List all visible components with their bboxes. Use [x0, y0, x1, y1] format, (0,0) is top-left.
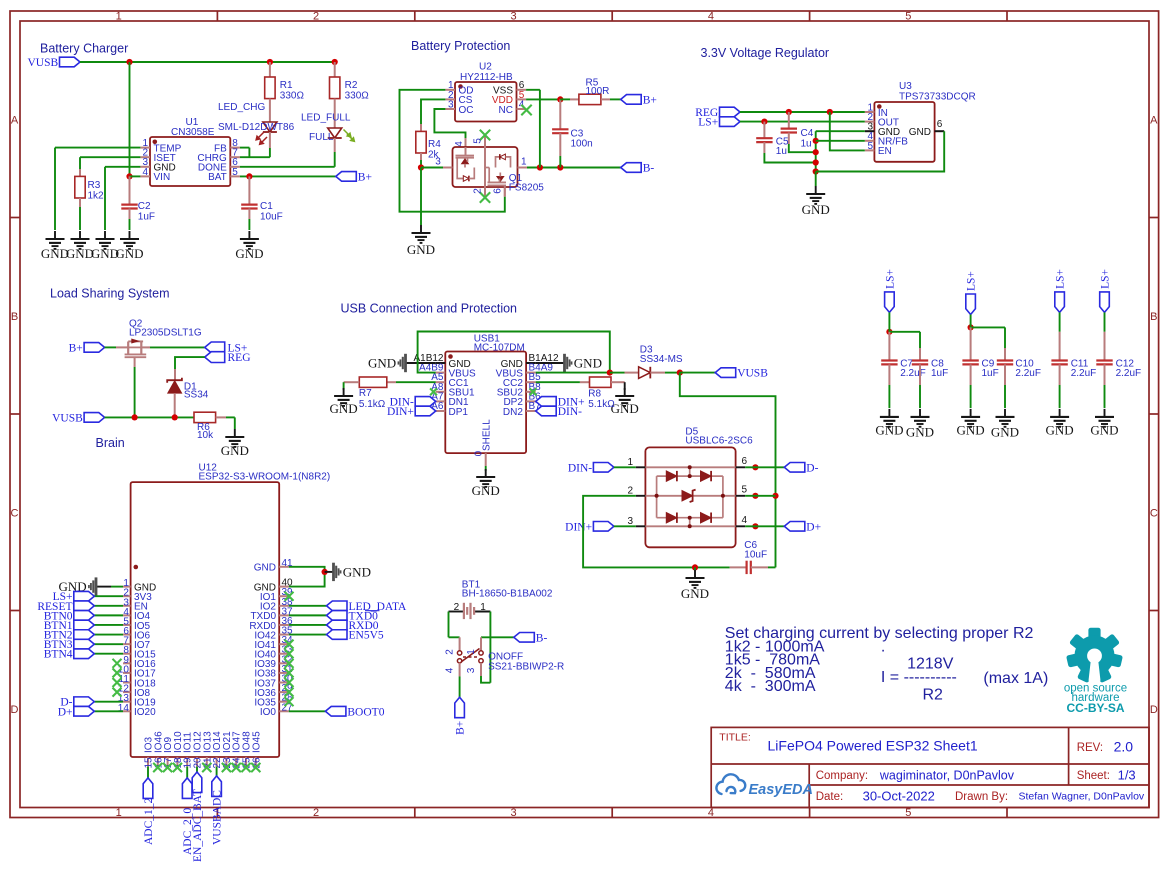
svg-text:TITLE:: TITLE: [719, 731, 751, 743]
svg-text:330Ω: 330Ω [280, 91, 305, 102]
svg-text:10k: 10k [197, 430, 214, 441]
svg-text:5: 5 [232, 167, 238, 178]
svg-text:2: 2 [445, 649, 456, 655]
svg-text:EN_ADC_BAT: EN_ADC_BAT [192, 789, 204, 862]
svg-text:0: 0 [474, 450, 485, 456]
svg-text:NC: NC [499, 105, 513, 116]
svg-text:GND: GND [875, 423, 903, 438]
svg-text:B+: B+ [455, 721, 467, 735]
svg-text:R1: R1 [280, 80, 293, 91]
svg-text:GND: GND [906, 425, 934, 440]
svg-text:LED_FULL: LED_FULL [301, 113, 351, 124]
svg-text:BAT: BAT [208, 172, 227, 183]
svg-text:1: 1 [466, 649, 477, 655]
svg-text:DIN+: DIN+ [565, 521, 592, 533]
svg-text:U3: U3 [899, 81, 912, 92]
svg-text:A: A [11, 114, 19, 126]
svg-text:D: D [1150, 704, 1158, 716]
svg-text:ADC_1_2: ADC_1_2 [143, 797, 155, 845]
svg-text:Stefan Wagner, D0nPavlov: Stefan Wagner, D0nPavlov [1019, 791, 1145, 803]
svg-text:BH-18650-B1BA002: BH-18650-B1BA002 [462, 588, 553, 599]
svg-text:100R: 100R [586, 86, 610, 97]
svg-text:MC-107DM: MC-107DM [474, 343, 525, 354]
svg-text:(max 1A): (max 1A) [983, 670, 1048, 687]
svg-text:B-: B- [643, 163, 655, 175]
svg-text:LP2305DSLT1G: LP2305DSLT1G [129, 328, 202, 339]
svg-text:B: B [1150, 311, 1157, 323]
svg-text:LS+: LS+ [1055, 269, 1067, 289]
svg-text:Drawn By:: Drawn By: [955, 791, 1008, 803]
svg-text:DP1: DP1 [449, 407, 469, 418]
svg-text:LS+: LS+ [884, 269, 896, 289]
svg-text:GND: GND [368, 356, 396, 371]
svg-text:GND: GND [1046, 423, 1074, 438]
svg-text:Sheet:: Sheet: [1077, 770, 1110, 782]
svg-text:IO45: IO45 [251, 731, 262, 753]
svg-text:6: 6 [742, 456, 748, 467]
svg-text:2.2uF: 2.2uF [1116, 368, 1142, 379]
svg-text:C: C [1150, 507, 1158, 519]
svg-text:6: 6 [493, 188, 504, 194]
svg-text:SML-D12DWT86: SML-D12DWT86 [218, 122, 295, 133]
svg-text:3: 3 [466, 667, 477, 673]
svg-text:2: 2 [454, 602, 460, 613]
svg-text:1k2: 1k2 [88, 191, 105, 202]
svg-text:BOOT0: BOOT0 [347, 706, 384, 718]
svg-text:B-: B- [536, 632, 548, 644]
svg-text:DIN-: DIN- [558, 406, 582, 418]
svg-text:5: 5 [473, 138, 484, 144]
svg-text:DIN+: DIN+ [387, 406, 414, 418]
svg-text:IO20: IO20 [134, 707, 156, 718]
svg-text:Load Sharing System: Load Sharing System [50, 287, 170, 301]
svg-text:SHELL: SHELL [482, 419, 493, 451]
svg-text:Date:: Date: [816, 791, 844, 803]
svg-text:U2: U2 [479, 62, 492, 73]
svg-text:GND: GND [957, 423, 985, 438]
svg-text:GND: GND [574, 356, 602, 371]
svg-text:4: 4 [454, 141, 465, 147]
svg-text:LED_CHG: LED_CHG [218, 102, 265, 113]
svg-text:R2: R2 [345, 80, 358, 91]
svg-text:SS34-MS: SS34-MS [640, 354, 683, 365]
svg-text:4: 4 [708, 11, 714, 23]
svg-text:C1: C1 [260, 201, 273, 212]
svg-text:R2: R2 [923, 687, 944, 704]
svg-text:3: 3 [435, 157, 441, 168]
svg-text:SS34: SS34 [184, 390, 209, 401]
svg-text:2.2uF: 2.2uF [1071, 368, 1097, 379]
svg-text:Battery Protection: Battery Protection [411, 39, 510, 53]
svg-text:Company:: Company: [816, 770, 868, 782]
svg-text:FULL: FULL [309, 132, 334, 143]
svg-text:Battery Charger: Battery Charger [40, 42, 128, 56]
svg-text:R8: R8 [588, 389, 601, 400]
svg-text:4: 4 [708, 807, 714, 819]
svg-text:GND: GND [1090, 423, 1118, 438]
svg-text:2: 2 [313, 11, 319, 23]
svg-text:REG: REG [228, 352, 251, 364]
svg-text:R3: R3 [88, 180, 101, 191]
svg-text:LS+: LS+ [966, 271, 978, 291]
svg-text:GND: GND [611, 401, 639, 416]
svg-text:30-Oct-2022: 30-Oct-2022 [863, 789, 935, 804]
svg-text:B: B [11, 311, 18, 323]
svg-text:3: 3 [448, 99, 454, 110]
svg-text:3: 3 [510, 807, 516, 819]
svg-text:4: 4 [445, 667, 456, 673]
svg-text:VIN: VIN [154, 172, 171, 183]
svg-text:1uF: 1uF [931, 368, 948, 379]
svg-text:5: 5 [742, 484, 748, 495]
svg-text:EasyEDA: EasyEDA [749, 782, 813, 798]
svg-text:IO0: IO0 [260, 707, 277, 718]
svg-text:LS+: LS+ [698, 117, 718, 129]
svg-text:VUSB: VUSB [52, 412, 83, 424]
svg-text:TPS73733DCQR: TPS73733DCQR [899, 92, 976, 103]
svg-text:GND: GND [802, 202, 830, 217]
svg-text:2: 2 [473, 188, 484, 194]
svg-text:10uF: 10uF [260, 212, 283, 223]
svg-text:5: 5 [905, 807, 911, 819]
svg-text:VUSB: VUSB [737, 368, 768, 380]
svg-text:R4: R4 [428, 139, 441, 150]
svg-text:5: 5 [867, 141, 873, 152]
svg-text:D+: D+ [806, 521, 821, 533]
svg-text:VUSBADC: VUSBADC [212, 790, 224, 845]
svg-text:GND: GND [343, 564, 371, 579]
svg-text:3.3V Voltage Regulator: 3.3V Voltage Regulator [701, 46, 830, 60]
svg-text:GND: GND [909, 127, 931, 138]
svg-text:GND: GND [66, 246, 94, 261]
svg-text:wagiminator, D0nPavlov: wagiminator, D0nPavlov [879, 769, 1015, 783]
svg-text:B+: B+ [69, 342, 83, 354]
svg-text:VUSB: VUSB [28, 57, 59, 69]
svg-text:OC: OC [459, 105, 474, 116]
svg-text:B+: B+ [358, 171, 372, 183]
svg-text:Brain: Brain [96, 436, 125, 450]
svg-text:GND: GND [235, 246, 263, 261]
svg-text:EN: EN [878, 146, 892, 157]
svg-text:SS21-BBIWP2-R: SS21-BBIWP2-R [488, 661, 564, 672]
svg-text:1/3: 1/3 [1118, 768, 1136, 783]
svg-text:D-: D- [806, 462, 818, 474]
svg-text:C4: C4 [801, 128, 814, 139]
svg-text:D: D [11, 704, 19, 716]
svg-text:4: 4 [142, 167, 148, 178]
svg-text:C2: C2 [138, 201, 151, 212]
svg-text:1u: 1u [776, 146, 787, 157]
svg-text:REV:: REV: [1077, 742, 1103, 754]
svg-text:3: 3 [510, 11, 516, 23]
svg-text:5.1kΩ: 5.1kΩ [359, 399, 386, 410]
svg-text:1: 1 [521, 157, 527, 168]
svg-text:1uF: 1uF [138, 212, 155, 223]
svg-text:2.2uF: 2.2uF [900, 368, 926, 379]
svg-text:CN3058E: CN3058E [171, 127, 215, 138]
svg-text:4: 4 [742, 515, 748, 526]
svg-text:1: 1 [480, 602, 486, 613]
svg-text:GND: GND [681, 586, 709, 601]
svg-text:GND: GND [472, 483, 500, 498]
svg-text:R7: R7 [359, 388, 372, 399]
svg-text:GND: GND [115, 246, 143, 261]
svg-text:USB Connection and Protection: USB Connection and Protection [341, 302, 518, 316]
svg-text:GND: GND [41, 246, 69, 261]
svg-text:2.0: 2.0 [1114, 739, 1134, 755]
svg-text:BTN4: BTN4 [44, 649, 73, 661]
svg-text:5: 5 [905, 11, 911, 23]
svg-text:2: 2 [313, 807, 319, 819]
svg-text:GND: GND [254, 563, 276, 574]
svg-text:4k - 300mA: 4k - 300mA [725, 678, 816, 695]
svg-text:GND: GND [330, 401, 358, 416]
svg-text:6: 6 [937, 119, 943, 130]
svg-text:CC-BY-SA: CC-BY-SA [1066, 701, 1124, 715]
svg-text:C: C [11, 507, 19, 519]
svg-text:.: . [881, 638, 885, 655]
svg-text:USBLC6-2SC6: USBLC6-2SC6 [685, 436, 753, 447]
svg-text:B+: B+ [643, 94, 657, 106]
svg-text:A: A [1150, 114, 1158, 126]
svg-text:GND: GND [221, 443, 249, 458]
svg-text:DIN-: DIN- [568, 462, 592, 474]
svg-text:2.2uF: 2.2uF [1015, 368, 1041, 379]
svg-text:1: 1 [116, 807, 122, 819]
svg-text:DN2: DN2 [503, 407, 523, 418]
svg-text:GND: GND [407, 242, 435, 257]
svg-text:HY2112-HB: HY2112-HB [460, 72, 513, 83]
svg-text:GND: GND [991, 425, 1019, 440]
svg-text:LS+: LS+ [1100, 269, 1112, 289]
svg-text:330Ω: 330Ω [345, 91, 370, 102]
svg-text:1: 1 [116, 11, 122, 23]
svg-text:D+: D+ [58, 706, 73, 718]
svg-text:5.1kΩ: 5.1kΩ [588, 399, 615, 410]
svg-text:100n: 100n [571, 139, 593, 150]
svg-text:LiFePO4 Powered ESP32 Sheet1: LiFePO4 Powered ESP32 Sheet1 [768, 738, 978, 754]
svg-text:I = ----------: I = ---------- [881, 669, 957, 686]
svg-text:EN5V5: EN5V5 [349, 630, 384, 642]
svg-text:1uF: 1uF [982, 368, 999, 379]
svg-text:1u: 1u [801, 139, 812, 150]
svg-text:FS8205: FS8205 [509, 182, 544, 193]
svg-text:10uF: 10uF [744, 550, 767, 561]
svg-text:ESP32-S3-WROOM-1(N8R2): ESP32-S3-WROOM-1(N8R2) [199, 472, 331, 483]
